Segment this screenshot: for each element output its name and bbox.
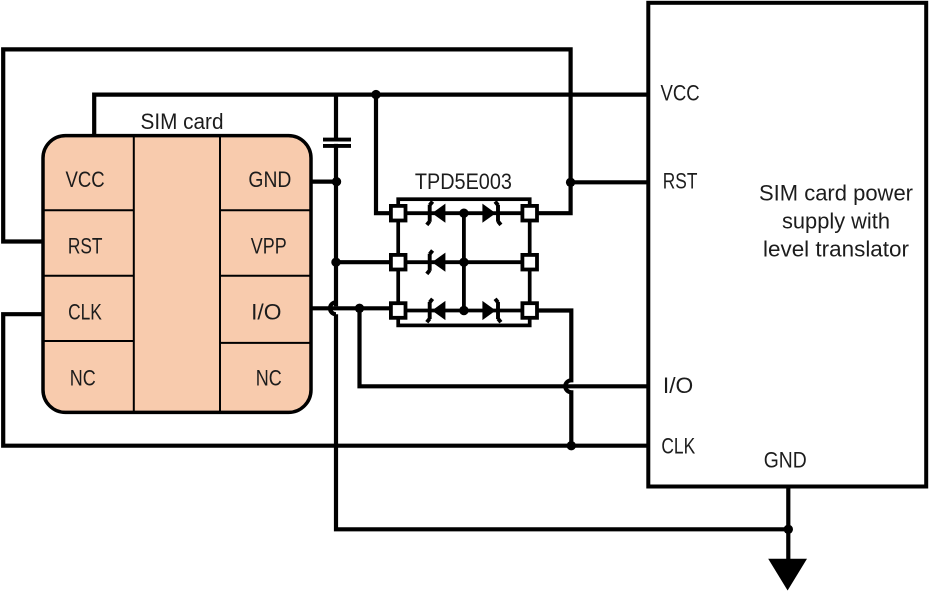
svg-text:TPD5E003: TPD5E003 <box>415 169 512 194</box>
TPD center rail <box>462 213 466 310</box>
svg-text:RST: RST <box>663 169 698 194</box>
TPD channel 2 row wire <box>398 260 530 264</box>
wire TPD pin 2 ground stub <box>336 260 392 264</box>
TPD diode D1a (row1 left, cathode left) <box>427 202 446 225</box>
wire RST node to supply box RST pin and down to TPD pin 6 <box>537 182 649 213</box>
TPD channel 3 row wire <box>398 309 530 313</box>
TPD pin 5 square (row2 right) <box>522 255 537 270</box>
ground symbol <box>768 559 807 591</box>
TPD pin 1 square (row1 left) <box>391 206 406 221</box>
TPD diode D2 (row2, cathode left) <box>427 251 446 274</box>
svg-text:CLK: CLK <box>661 433 695 458</box>
TPD channel 1 row wire <box>398 211 530 215</box>
wire SIM card GND pin stub <box>311 180 336 184</box>
svg-text:SIM card power: SIM card power <box>759 181 913 206</box>
junction dot CLK node <box>567 441 576 450</box>
svg-text:SIM card: SIM card <box>141 109 224 134</box>
junction dot RST node <box>566 178 575 187</box>
TPD diode D1b (row1 right, cathode right) <box>482 202 501 225</box>
TPD pin 6 square (row1 right) <box>522 206 537 221</box>
TPD diode D3a (row3 left, cathode left) <box>427 299 446 322</box>
svg-text:I/O: I/O <box>663 373 693 398</box>
svg-text:NC: NC <box>70 365 96 390</box>
junction dot supply GND node <box>784 525 793 534</box>
wire VCC run from SIM card top edge to supply box VCC pin <box>94 95 648 136</box>
SIM card body <box>43 136 311 413</box>
wire RST loop: card RST pin left, up, across top, down to RST node <box>3 49 570 241</box>
junction dot TPD center rail row1 <box>459 209 468 218</box>
junction dot TPD pin 2 / ground rail node <box>331 258 340 267</box>
svg-text:RST: RST <box>68 233 103 258</box>
capacitor C1 plates <box>323 140 351 146</box>
TPD pin 3 square (row3 left) <box>391 303 406 318</box>
TPD diode D3b (row3 right, cathode right) <box>482 299 501 322</box>
wire supply box GND pin down to ground symbol <box>786 486 790 559</box>
TPD5E003 package outline <box>398 199 530 325</box>
svg-text:supply with: supply with <box>782 209 890 234</box>
wire TPD pin 4 right and down (hop over I/O wire) to CLK node <box>537 311 572 446</box>
svg-text:level translator: level translator <box>763 237 909 262</box>
SIM card internal dividers <box>43 136 311 413</box>
junction dot TPD center rail row3 <box>459 306 468 315</box>
svg-text:VCC: VCC <box>66 167 105 192</box>
junction dot on VCC wire at TPD branch <box>371 90 380 99</box>
wire hop arc on ground rail over I/O wire <box>330 302 336 314</box>
supply box outline <box>648 3 926 487</box>
wire I/O run from SIM card I/O pin to TPD pin 3 <box>311 306 392 310</box>
wire VCC branch down to TPD pin 1 <box>376 95 392 214</box>
wire CLK from SIM card CLK pin left, down, across bottom to supply box CLK pin <box>3 314 648 446</box>
svg-text:GND: GND <box>248 167 291 192</box>
svg-text:GND: GND <box>764 448 807 473</box>
svg-text:CLK: CLK <box>68 299 102 324</box>
junction dot SIM GND / capacitor node <box>332 177 341 186</box>
TPD pin 2 square (row2 left) <box>391 255 406 270</box>
wire hop arc on TPD pin 4 drop over I/O wire <box>565 380 571 392</box>
svg-text:I/O: I/O <box>251 299 281 324</box>
junction dot TPD center rail row2 <box>459 258 468 267</box>
svg-text:NC: NC <box>256 365 282 390</box>
junction dot I/O branch node <box>355 304 364 313</box>
wire I/O branch down and right to supply box I/O pin <box>360 308 649 386</box>
svg-text:VCC: VCC <box>661 80 700 105</box>
wire ground rail: VCC wire tap down through capacitor, hop over I/O wire, to bottom ground run <box>336 95 788 530</box>
svg-text:VPP: VPP <box>251 233 287 258</box>
TPD pin 4 square (row3 right) <box>522 303 537 318</box>
